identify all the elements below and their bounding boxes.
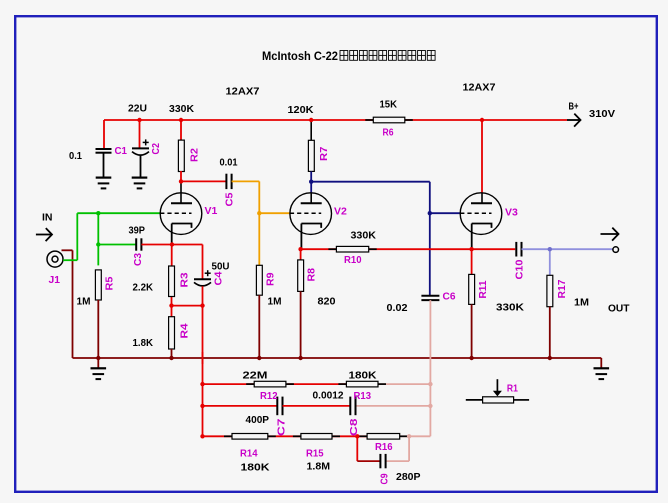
svg-text:R10: R10	[344, 254, 362, 266]
svg-text:R9: R9	[264, 272, 276, 286]
svg-text:R16: R16	[375, 441, 393, 453]
svg-text:330K: 330K	[496, 302, 524, 314]
svg-text:22U: 22U	[128, 103, 147, 115]
svg-text:C6: C6	[443, 291, 456, 303]
svg-text:0.1: 0.1	[69, 150, 82, 162]
svg-text:0.02: 0.02	[387, 302, 408, 314]
svg-text:R14: R14	[240, 448, 258, 460]
svg-text:180K: 180K	[241, 462, 270, 474]
svg-text:2.2K: 2.2K	[133, 282, 154, 294]
svg-text:R3: R3	[179, 272, 191, 287]
svg-text:R5: R5	[103, 276, 115, 290]
svg-text:12AX7: 12AX7	[463, 82, 496, 94]
svg-text:22M: 22M	[243, 370, 268, 382]
svg-text:R6: R6	[383, 127, 394, 139]
svg-text:C8: C8	[348, 418, 360, 436]
svg-text:330K: 330K	[351, 230, 377, 242]
svg-text:C10: C10	[513, 259, 525, 279]
svg-text:1M: 1M	[268, 296, 282, 308]
svg-text:C7: C7	[276, 418, 288, 436]
svg-text:R1: R1	[507, 383, 518, 395]
svg-text:0.01: 0.01	[220, 157, 238, 169]
svg-text:330K: 330K	[169, 103, 194, 115]
svg-text:1.8K: 1.8K	[133, 337, 154, 349]
svg-text:B+: B+	[569, 101, 579, 113]
svg-text:R15: R15	[306, 448, 324, 460]
svg-text:C2: C2	[150, 143, 162, 155]
svg-text:J1: J1	[49, 274, 61, 286]
svg-text:310V: 310V	[589, 108, 615, 120]
svg-text:15K: 15K	[380, 99, 398, 111]
svg-text:400P: 400P	[246, 414, 270, 426]
svg-text:McIntosh C-22: McIntosh C-22	[262, 49, 338, 63]
svg-text:R4: R4	[179, 323, 191, 338]
svg-text:C5: C5	[223, 192, 235, 206]
svg-text:280P: 280P	[396, 471, 421, 483]
svg-text:IN: IN	[42, 212, 53, 224]
svg-text:1M: 1M	[574, 297, 589, 309]
svg-text:R11: R11	[477, 280, 489, 298]
svg-text:C4: C4	[212, 271, 224, 285]
svg-text:C1: C1	[115, 145, 128, 157]
svg-text:R8: R8	[306, 268, 318, 282]
svg-text:C3: C3	[132, 253, 144, 266]
svg-text:C9: C9	[379, 473, 391, 484]
svg-text:R2: R2	[188, 148, 200, 162]
svg-text:1M: 1M	[77, 296, 91, 308]
svg-text:R17: R17	[556, 279, 568, 298]
svg-text:R12: R12	[260, 390, 278, 402]
svg-text:820: 820	[318, 296, 336, 308]
svg-text:0.0012: 0.0012	[313, 390, 344, 402]
svg-text:R13: R13	[354, 390, 372, 402]
svg-text:1.8M: 1.8M	[307, 461, 331, 473]
svg-text:V1: V1	[205, 205, 218, 217]
svg-text:R7: R7	[318, 146, 330, 161]
svg-text:50U: 50U	[212, 261, 230, 273]
svg-text:180K: 180K	[349, 370, 377, 382]
svg-text:V2: V2	[334, 206, 347, 218]
svg-text:OUT: OUT	[608, 303, 630, 315]
svg-text:120K: 120K	[288, 104, 314, 116]
svg-text:V3: V3	[505, 207, 518, 219]
svg-text:12AX7: 12AX7	[226, 86, 260, 98]
svg-text:39P: 39P	[129, 225, 146, 237]
